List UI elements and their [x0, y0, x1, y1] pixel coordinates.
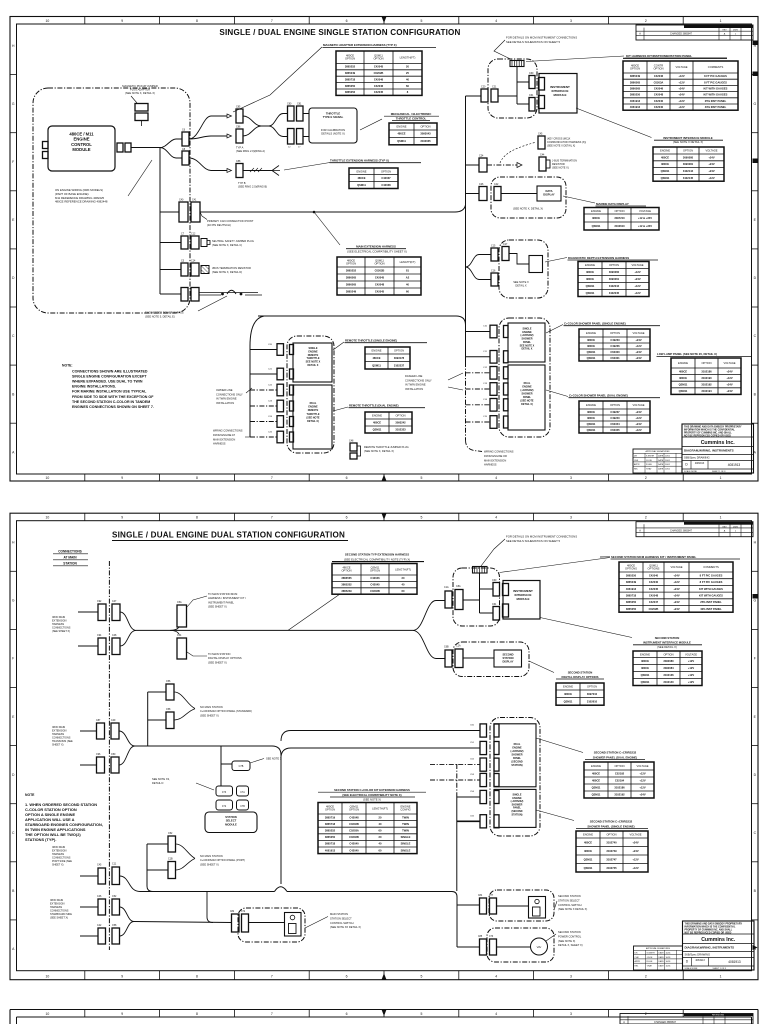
- svg-text:C17: C17: [503, 243, 508, 246]
- title block drawing number: [691, 958, 693, 967]
- svg-text:SECOND STATION TYP EXTENSION H: SECOND STATION TYP EXTENSION HARNESS: [345, 553, 409, 557]
- svg-text:3865250: 3865250: [626, 607, 637, 611]
- svg-text:3102740: 3102740: [606, 840, 617, 844]
- svg-text:VAr: VAr: [537, 945, 542, 949]
- svg-text:C42046: C42046: [374, 77, 384, 81]
- leader diagnostic table: [545, 258, 567, 263]
- wire pairs into throttle box: [303, 113, 309, 115]
- svg-text:THROTTLE: THROTTLE: [307, 413, 320, 416]
- svg-text:1: 1: [720, 19, 722, 23]
- svg-text:(SEE NOTE 5, DETAIL E): (SEE NOTE 5, DETAIL E): [145, 314, 175, 318]
- svg-text:C62320: C62320: [610, 350, 620, 354]
- bus drop to select switch: [207, 892, 213, 923]
- connector C54 dropper: [170, 630, 179, 634]
- svg-text:C62345: C62345: [610, 428, 620, 432]
- wire split to diagnostic connectors: [466, 255, 492, 268]
- svg-text:+24V: +24V: [673, 600, 679, 604]
- title block drawing number: [690, 461, 692, 470]
- svg-text:OPTION: OPTION: [420, 125, 430, 129]
- wire to diagnostic connector: [509, 254, 529, 265]
- svg-text:(SEE ELECTRICAL COMPATIBILITY: (SEE ELECTRICAL COMPATIBILITY NOTE (TYP)…: [344, 557, 410, 561]
- svg-text:COMMENTS: COMMENTS: [708, 65, 724, 69]
- svg-text:C7A: C7A: [240, 791, 245, 794]
- svg-text:C42046: C42046: [654, 74, 664, 78]
- svg-text:F: F: [754, 657, 756, 661]
- svg-text:DETAIL X): DETAIL X): [521, 403, 533, 406]
- svg-text:480CE: 480CE: [587, 410, 595, 414]
- wire C8 to C88: [189, 158, 227, 171]
- leader throttle extension table: [284, 163, 330, 171]
- svg-text:480CE: 480CE: [661, 155, 669, 159]
- svg-text:J.DOE: J.DOE: [646, 460, 653, 462]
- svg-text:C87: C87: [96, 719, 101, 722]
- svg-text:C+COLOR SHOWER PANEL (SINGLE E: C+COLOR SHOWER PANEL (SINGLE ENGINE): [564, 322, 626, 326]
- svg-text:C+COLOR SHOWER PANEL (DUAL ENG: C+COLOR SHOWER PANEL (DUAL ENGINE): [569, 394, 628, 398]
- svg-text:9: 9: [121, 1012, 123, 1016]
- bus lower horizontal to shower cluster: [258, 316, 466, 325]
- svg-text:10/01: 10/01: [666, 957, 672, 959]
- second station power control dashed box: [487, 928, 554, 962]
- svg-text:OPTION: OPTION: [606, 833, 616, 837]
- remote row 1 panel pin: [290, 345, 294, 355]
- svg-text:C42045: C42045: [375, 276, 385, 280]
- svg-text:OPTIONS: OPTIONS: [625, 566, 637, 570]
- svg-text:C42040: C42040: [654, 99, 664, 103]
- svg-text:SECOND STATION: SECOND STATION: [655, 636, 680, 640]
- svg-text:SINGLE: SINGLE: [401, 842, 411, 846]
- second shower row 5 connector: [480, 790, 487, 803]
- svg-text:ENGINE: ENGINE: [563, 685, 573, 689]
- main bus corner right: [465, 96, 467, 362]
- svg-text:DATE: DATE: [658, 459, 664, 462]
- svg-text:7: 7: [271, 516, 273, 520]
- svg-text:3865719: 3865719: [325, 815, 336, 819]
- svg-text:S.SMITH: S.SMITH: [647, 953, 656, 955]
- svg-text:(SEE ELECTRICAL COMPATIBILITY: (SEE ELECTRICAL COMPATIBILITY NOTE X): [342, 793, 401, 797]
- svg-text:480CE: 480CE: [564, 692, 572, 696]
- svg-text:LENGTH(FT): LENGTH(FT): [400, 55, 416, 59]
- svg-text:(SEE SHEET X): (SEE SHEET X): [52, 630, 70, 633]
- svg-text:OPTION: OPTION: [614, 764, 624, 768]
- svg-text:VOLTAGE: VOLTAGE: [685, 652, 697, 656]
- wire to data display: [501, 193, 537, 195]
- svg-text:3090081: 3090081: [683, 162, 694, 166]
- svg-text:FROM SIDE TO SIDE WITH THE EXC: FROM SIDE TO SIDE WITH THE EXCEPTION OF: [72, 395, 154, 399]
- svg-text:(SEE NOTE X, DETAIL C): (SEE NOTE X, DETAIL C): [212, 243, 242, 247]
- svg-text:2: 2: [645, 476, 647, 480]
- svg-text:S6B/Spec DRAWING: S6B/Spec DRAWING: [684, 456, 710, 460]
- connector C58: [166, 712, 174, 729]
- svg-text:480CE: 480CE: [679, 369, 687, 373]
- svg-text:DIGITAL DISPLAY OPTIONS: DIGITAL DISPLAY OPTIONS: [208, 656, 242, 660]
- svg-text:C49: C49: [111, 719, 116, 722]
- svg-text:3102192: 3102192: [701, 383, 712, 387]
- svg-text:NOTE:: NOTE:: [62, 364, 73, 368]
- svg-text:+24V: +24V: [639, 793, 645, 797]
- svg-text:LENGTH(FT): LENGTH(FT): [372, 806, 388, 810]
- svg-text:3090061: 3090061: [609, 277, 620, 281]
- remote row 1 connector: [277, 344, 284, 356]
- svg-text:8 FT P/C GAUGES: 8 FT P/C GAUGES: [704, 80, 727, 84]
- svg-text:C72: C72: [222, 806, 227, 808]
- remote row 3 connector: [277, 384, 284, 396]
- wire to select switch: [134, 922, 232, 923]
- IIM pins sheet2: [503, 584, 509, 596]
- svg-text:C52192: C52192: [615, 772, 625, 776]
- svg-text:G: G: [12, 102, 15, 106]
- svg-text:ENGINE: ENGINE: [396, 125, 406, 129]
- svg-text:QSM11: QSM11: [397, 139, 406, 143]
- svg-text:8 FT P/C GAUGES: 8 FT P/C GAUGES: [700, 580, 723, 584]
- svg-text:+12V: +12V: [678, 74, 684, 78]
- second station select switch pair: [480, 898, 487, 914]
- svg-text:+24V: +24V: [673, 573, 679, 577]
- svg-text:MAIN EXTENSION HARNESS: MAIN EXTENSION HARNESS: [356, 245, 396, 249]
- svg-text:C11: C11: [112, 863, 117, 866]
- svg-text:DETAIL D: DETAIL D: [152, 781, 164, 785]
- svg-text:C42038: C42038: [381, 183, 391, 187]
- svg-text:DETAIL X: DETAIL X: [308, 364, 319, 367]
- svg-text:3090084: 3090084: [663, 666, 674, 670]
- svg-text:+24V: +24V: [634, 277, 640, 281]
- svg-text:ENGINE: ENGINE: [591, 764, 601, 768]
- svg-text:+12V: +12V: [673, 580, 679, 584]
- svg-text:CONFIG: CONFIG: [400, 808, 410, 812]
- remote row 5 connector: [277, 416, 284, 428]
- svg-text:APPROVAL SIGNATURES: APPROVAL SIGNATURES: [646, 947, 671, 950]
- svg-text:3865718: 3865718: [345, 77, 356, 81]
- svg-text:STATION): STATION): [512, 813, 523, 816]
- svg-text:+12V: +12V: [635, 416, 641, 420]
- svg-text:480CE: 480CE: [357, 176, 365, 180]
- svg-text:40% INST PANEL: 40% INST PANEL: [705, 105, 727, 109]
- svg-text:C42047: C42047: [649, 600, 659, 604]
- border zone labels: [12, 516, 757, 979]
- IIM left pins: [539, 78, 545, 91]
- svg-text:480CE: 480CE: [587, 344, 595, 348]
- svg-text:PLUG ADAPTER: PLUG ADAPTER: [130, 88, 150, 92]
- remote row 2 wire: [250, 373, 277, 375]
- svg-text:QSM11: QSM11: [373, 428, 382, 432]
- second shower row 5 pin: [494, 791, 499, 804]
- svg-text:10/01: 10/01: [665, 456, 671, 458]
- svg-text:3: 3: [570, 476, 572, 480]
- svg-text:TWIN: TWIN: [402, 822, 409, 826]
- svg-text:THIS DRAWING AND DATA EMBODY P: THIS DRAWING AND DATA EMBODY PROPRIETARY: [684, 425, 742, 428]
- svg-text:3090080: 3090080: [683, 155, 694, 159]
- svg-text:+24V: +24V: [635, 356, 641, 360]
- second shower row 4 connector: [480, 773, 487, 786]
- svg-text:G: G: [12, 599, 15, 603]
- third sheet top border: [10, 1009, 758, 1011]
- svg-text:C49233: C49233: [610, 338, 620, 342]
- svg-text:SECOND STATION C+COLOR KIT EXT: SECOND STATION C+COLOR KIT EXTENSION HAR…: [334, 788, 410, 792]
- pair C87 C49: [97, 723, 105, 739]
- svg-text:DATE: DATE: [658, 463, 664, 466]
- svg-text:+24V: +24V: [673, 587, 679, 591]
- svg-text:480CE: 480CE: [661, 162, 669, 166]
- svg-text:OPTION: OPTION: [373, 57, 383, 61]
- connector C8: [182, 151, 189, 165]
- svg-text:10/01: 10/01: [665, 468, 671, 470]
- svg-text:QSM11: QSM11: [587, 356, 596, 360]
- callout arrow C85: [227, 114, 232, 118]
- shower row 2 wire: [466, 356, 491, 358]
- svg-text:MAGNETIC ADAPTER EXTENSION HAR: MAGNETIC ADAPTER EXTENSION HARNESS (TYP …: [323, 43, 397, 47]
- pair C45 to bus curve: [120, 876, 141, 892]
- svg-text:R.LEE: R.LEE: [647, 961, 653, 963]
- svg-text:1: 1: [720, 975, 722, 979]
- svg-text:SCALE NONE: SCALE NONE: [684, 470, 698, 473]
- svg-text:10/01: 10/01: [665, 460, 671, 462]
- svg-text:480CE: 480CE: [641, 659, 649, 663]
- svg-text:10/01: 10/01: [666, 965, 672, 967]
- svg-text:3097210: 3097210: [587, 692, 598, 696]
- svg-text:C54: C54: [177, 634, 182, 637]
- svg-text:DETAIL X: DETAIL X: [522, 348, 533, 351]
- svg-text:3865249: 3865249: [345, 71, 356, 75]
- svg-text:3865718: 3865718: [626, 593, 637, 597]
- second shower row 6 connector: [480, 815, 487, 828]
- svg-text:+24V: +24V: [632, 849, 638, 853]
- connector C60 sheet2: [493, 583, 500, 597]
- svg-text:LENGTH(FT): LENGTH(FT): [400, 260, 416, 264]
- svg-text:8: 8: [196, 19, 198, 23]
- svg-text:SEE NOTE X: SEE NOTE X: [266, 757, 282, 761]
- svg-text:TO MAIN STATION MCM: TO MAIN STATION MCM: [208, 592, 237, 596]
- svg-text:+12V: +12V: [678, 80, 684, 84]
- svg-text:4: 4: [495, 19, 497, 23]
- svg-text:+24V: +24V: [726, 383, 732, 387]
- svg-text:25% INST PANEL: 25% INST PANEL: [700, 600, 722, 604]
- svg-text:C42045: C42045: [374, 65, 384, 69]
- svg-text:C94: C94: [97, 634, 102, 637]
- connector C5A riser: [170, 627, 179, 630]
- svg-text:Cummins Inc.: Cummins Inc.: [701, 440, 736, 446]
- svg-text:C+CR/RS232 OPTION PANEL (PORT): C+CR/RS232 OPTION PANEL (PORT): [200, 858, 245, 862]
- wire split to throttle connectors: [269, 114, 287, 127]
- leader IIM to module table: [576, 108, 652, 138]
- second shower row 6 wire: [457, 820, 480, 822]
- svg-text:3093242: 3093242: [395, 421, 406, 425]
- svg-text:THIS DRAWING AND DATA EMBODY P: THIS DRAWING AND DATA EMBODY PROPRIETARY: [685, 922, 743, 925]
- connector C85: [236, 109, 243, 123]
- svg-text:VOLTAGE: VOLTAGE: [632, 331, 644, 335]
- svg-text:8 FT P/C GAUGES: 8 FT P/C GAUGES: [704, 74, 727, 78]
- second station data display unit: [494, 650, 522, 667]
- svg-text:5: 5: [420, 975, 422, 979]
- svg-text:9: 9: [121, 19, 123, 23]
- svg-text:CHK: CHK: [635, 957, 640, 959]
- svg-text:480CE: 480CE: [641, 666, 649, 670]
- svg-text:+12V: +12V: [639, 779, 645, 783]
- second station interface module box: [503, 581, 540, 620]
- svg-text:QSM11: QSM11: [587, 428, 596, 432]
- svg-text:8: 8: [196, 975, 198, 979]
- svg-text:INSTRUMENT INTERFACE MODULE: INSTRUMENT INTERFACE MODULE: [643, 641, 691, 645]
- svg-text:(SEE SHEET X): (SEE SHEET X): [208, 660, 227, 664]
- leader shower single table: [546, 325, 563, 334]
- svg-text:+12 & +24V: +12 & +24V: [638, 216, 652, 220]
- svg-text:SECOND STATION MCM HARNESS KIT: SECOND STATION MCM HARNESS KIT / INSTRUM…: [611, 555, 697, 559]
- svg-text:+12V: +12V: [688, 680, 694, 684]
- shower row 1 panel pin: [504, 326, 509, 338]
- svg-text:6: 6: [346, 19, 348, 23]
- leader second shower dual table: [536, 738, 583, 753]
- svg-text:C1A: C1A: [444, 586, 449, 589]
- dash wire to comm arrow: [487, 164, 517, 166]
- svg-text:C44: C44: [540, 154, 545, 157]
- second shower row 6 pin: [494, 815, 499, 828]
- svg-text:480CE: 480CE: [584, 840, 592, 844]
- svg-text:SECOND STATION: SECOND STATION: [558, 930, 581, 934]
- svg-text:2: 2: [645, 19, 647, 23]
- svg-text:3102323: 3102323: [395, 428, 406, 432]
- svg-text:4: 4: [495, 1012, 497, 1016]
- svg-text:3865250: 3865250: [626, 573, 637, 577]
- svg-text:480CE: 480CE: [587, 338, 595, 342]
- svg-text:QSM11: QSM11: [584, 866, 593, 870]
- neutral safety jumper plug: [201, 239, 207, 247]
- leader dashed box to kit table: [500, 558, 611, 573]
- svg-text:VOLTAGE: VOLTAGE: [629, 833, 641, 837]
- svg-text:VOLTAGE: VOLTAGE: [670, 565, 682, 569]
- shower row 6 wire: [466, 421, 491, 423]
- svg-text:DETAIL X, SHEET X): DETAIL X, SHEET X): [558, 943, 583, 947]
- svg-text:FOR DETAILS ON MCM INSTRUMENT: FOR DETAILS ON MCM INSTRUMENT CONNECTION…: [506, 36, 577, 40]
- second station boundary dash-dot: [456, 764, 458, 797]
- svg-text:+24V: +24V: [726, 389, 732, 393]
- svg-text:STATION SELECT: STATION SELECT: [558, 898, 580, 902]
- svg-text:TYP B: TYP B: [238, 181, 246, 185]
- second shower row 1 connector: [480, 724, 487, 737]
- sheet border outer frame: [10, 513, 758, 980]
- svg-text:MECHANICAL / ELECTRONIC: MECHANICAL / ELECTRONIC: [391, 112, 432, 116]
- svg-text:THROTTLE CONTROL: THROTTLE CONTROL: [396, 116, 427, 120]
- svg-text:MODULE: MODULE: [72, 147, 90, 152]
- connector C17 in diagnostic box: [502, 247, 509, 261]
- remote row 2 panel pin: [290, 369, 294, 379]
- svg-text:C88: C88: [236, 160, 241, 163]
- svg-text:C61: C61: [529, 94, 534, 97]
- svg-text:10: 10: [46, 19, 50, 23]
- remote row 6 connector: [277, 431, 284, 443]
- svg-text:IN TWIN ENGINE: IN TWIN ENGINE: [216, 397, 237, 401]
- select switch symbol: [285, 913, 302, 937]
- shower panel dual engine box: [508, 365, 545, 430]
- svg-text:OPTION: OPTION: [610, 403, 620, 407]
- svg-text:ENGINE: ENGINE: [678, 361, 688, 365]
- svg-text:C0203A: C0203A: [349, 829, 359, 833]
- svg-text:C86: C86: [236, 126, 241, 129]
- second shower row 2 pin: [494, 742, 499, 755]
- svg-text:+24V: +24V: [678, 93, 684, 97]
- svg-text:3865249: 3865249: [346, 290, 357, 294]
- wire row jbus resistor: [160, 269, 181, 271]
- connector pair C80 C81: [288, 106, 295, 121]
- cluster2 bus wire: [135, 746, 281, 884]
- svg-text:C52: C52: [112, 895, 117, 898]
- svg-text:C52194: C52194: [615, 779, 625, 783]
- svg-text:NO MAIN STATION: NO MAIN STATION: [200, 854, 223, 858]
- svg-text:C85: C85: [236, 106, 241, 109]
- svg-text:QSM11: QSM11: [661, 176, 670, 180]
- svg-text:ENGINE: ENGINE: [591, 209, 601, 213]
- svg-text:C73: C73: [222, 792, 227, 794]
- svg-text:C42040: C42040: [349, 848, 359, 852]
- svg-text:DISPLAY: DISPLAY: [502, 660, 513, 664]
- svg-text:SINGLE: SINGLE: [401, 835, 411, 839]
- svg-text:3866565: 3866565: [346, 283, 357, 287]
- svg-text:(SEE NOTE X, DETAIL D): (SEE NOTE X, DETAIL D): [212, 270, 242, 274]
- bypass twisted wire with junctions: [199, 292, 258, 294]
- svg-text:ENGINE: ENGINE: [308, 406, 318, 409]
- ECM output connectors: [117, 143, 123, 152]
- svg-text:WIRING CONNECTIONS: WIRING CONNECTIONS: [213, 429, 243, 433]
- svg-text:PROPERTY OF CUMMINS INC. AND S: PROPERTY OF CUMMINS INC. AND SHALL: [685, 928, 733, 931]
- callout arrow C88: [227, 169, 232, 173]
- svg-text:VOLTAGE: VOLTAGE: [632, 403, 644, 407]
- svg-text:3865250: 3865250: [325, 835, 336, 839]
- svg-text:FOR CALIBRATION: FOR CALIBRATION: [321, 128, 345, 132]
- second station power control pair: [480, 939, 487, 955]
- svg-text:3865250: 3865250: [345, 84, 356, 88]
- leader on-engine note to wire: [128, 160, 152, 196]
- svg-text:MAIN STATION: MAIN STATION: [330, 912, 348, 916]
- svg-text:VOLTAGE: VOLTAGE: [705, 149, 717, 153]
- svg-text:MAIN EXTENSION: MAIN EXTENSION: [484, 458, 506, 462]
- svg-text:480CE: 480CE: [592, 216, 600, 220]
- svg-text:(SEE NOTE: (SEE NOTE: [306, 416, 320, 419]
- svg-text:+12V: +12V: [639, 786, 645, 790]
- svg-text:4: 4: [495, 516, 497, 520]
- svg-text:+12V: +12V: [632, 866, 638, 870]
- connector C1B: [168, 862, 176, 879]
- svg-text:C85: C85: [478, 936, 483, 938]
- svg-text:C42040: C42040: [654, 105, 664, 109]
- svg-text:QSM11: QSM11: [641, 680, 650, 684]
- svg-text:480CE: 480CE: [587, 416, 595, 420]
- svg-text:NO MAIN STATION: NO MAIN STATION: [200, 705, 223, 709]
- svg-text:SEE DETAILS SCHEMATICS ON SHEE: SEE DETAILS SCHEMATICS ON SHEET 5: [506, 539, 561, 543]
- svg-text:(40 PIN DEUTSCH): (40 PIN DEUTSCH): [207, 223, 231, 227]
- connector C56: [166, 684, 174, 700]
- border zone labels: [12, 19, 757, 480]
- svg-text:INSTALLATION: INSTALLATION: [216, 401, 234, 405]
- svg-text:OPTION: OPTION: [630, 66, 640, 70]
- svg-text:REMOTE THROTTLE JUMPER PLUG: REMOTE THROTTLE JUMPER PLUG: [364, 445, 409, 449]
- merge wires to station bus: [120, 612, 136, 630]
- title block frame: [683, 921, 755, 970]
- svg-text:C42040: C42040: [349, 842, 359, 846]
- wire row data display: [466, 193, 480, 195]
- shower row 6 connector: [490, 416, 497, 429]
- svg-text:VOLTAGE: VOLTAGE: [675, 65, 687, 69]
- svg-text:+12V: +12V: [634, 270, 640, 274]
- revision block: [636, 522, 753, 537]
- svg-text:C1B: C1B: [168, 858, 173, 861]
- svg-text:IN TWIN ENGINE: IN TWIN ENGINE: [405, 383, 426, 387]
- svg-text:3102186: 3102186: [701, 369, 712, 373]
- svg-text:4061913: 4061913: [325, 848, 336, 852]
- svg-text:TO MAIN STATION: TO MAIN STATION: [208, 652, 230, 656]
- svg-text:OPTION: OPTION: [370, 569, 380, 573]
- svg-text:10: 10: [46, 516, 50, 520]
- svg-text:C40: C40: [179, 199, 184, 202]
- svg-text:A2: A2: [406, 276, 410, 280]
- svg-text:C20: C20: [481, 86, 486, 89]
- svg-text:C60: C60: [492, 579, 497, 582]
